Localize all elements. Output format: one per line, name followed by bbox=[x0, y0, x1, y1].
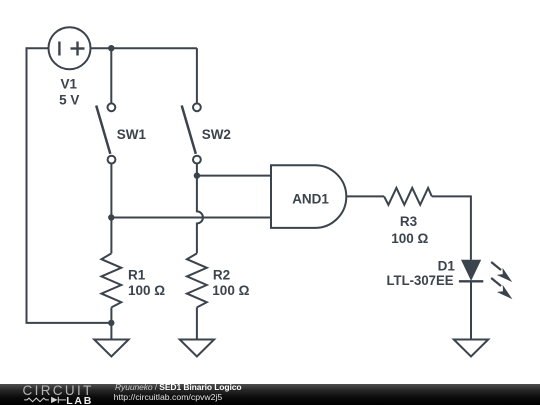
wire SW2 bottom lead to node A bbox=[196, 164, 198, 176]
wire R2 bottom to ground bbox=[196, 307, 198, 339]
resistor R2 bbox=[187, 253, 207, 307]
wire R1 bottom to ground bbox=[110, 307, 112, 339]
ground for R2 bbox=[180, 340, 214, 357]
voltage source V1 bbox=[49, 27, 91, 69]
svg-text:AND1: AND1 bbox=[292, 191, 329, 206]
wire AND1 output to R3 bbox=[346, 195, 384, 197]
svg-text:R2: R2 bbox=[213, 268, 230, 283]
wire node B to AND1 input bbox=[111, 217, 271, 219]
switch SW1 bbox=[96, 103, 115, 163]
junction node V1/SW1 top bbox=[108, 45, 114, 51]
wire V1 right to SW2 top bbox=[91, 47, 197, 49]
wire bottom horizontal rail to R1 ground node bbox=[26, 322, 112, 324]
diode D1 LED bbox=[459, 260, 513, 299]
svg-text:SW2: SW2 bbox=[202, 127, 231, 142]
ground for D1 bbox=[454, 340, 488, 357]
resistor R1 bbox=[101, 253, 121, 307]
svg-text:LTL-307EE: LTL-307EE bbox=[387, 273, 454, 288]
ground for R1 bbox=[94, 340, 128, 357]
footer bar bbox=[0, 384, 540, 405]
svg-text:100 Ω: 100 Ω bbox=[391, 231, 428, 246]
AND gate AND1 bbox=[271, 165, 346, 228]
wire D1 cathode to ground bbox=[470, 281, 472, 339]
svg-text:D1: D1 bbox=[438, 259, 456, 274]
wire V1 left stub to rail bbox=[27, 47, 49, 49]
wire node A to AND1 input bbox=[197, 175, 271, 177]
wire node A down to R2 with hop over input B wire bbox=[197, 176, 203, 254]
CircuitLab logo text CIRCUIT bbox=[23, 384, 94, 398]
wire SW1 top lead bbox=[110, 48, 112, 103]
CircuitLab logo text LAB bbox=[66, 396, 93, 405]
svg-text:SW1: SW1 bbox=[117, 127, 147, 142]
attribution author/title bbox=[115, 383, 241, 392]
resistor R3 bbox=[384, 188, 432, 205]
svg-text:R3: R3 bbox=[400, 214, 418, 229]
svg-text:100 Ω: 100 Ω bbox=[128, 283, 165, 298]
svg-text:R1: R1 bbox=[128, 268, 146, 283]
svg-text:5 V: 5 V bbox=[59, 92, 79, 107]
junction node SW2/R2 to gate input A bbox=[194, 172, 200, 178]
switch SW2 bbox=[182, 103, 201, 163]
CircuitLab logo resistor-diode glyph bbox=[22, 394, 92, 405]
junction node SW1/R1 to gate input B bbox=[108, 214, 114, 220]
wire SW1 bottom lead down to R1 bbox=[110, 164, 112, 254]
attribution url bbox=[114, 393, 223, 402]
svg-text:V1: V1 bbox=[60, 76, 77, 91]
svg-text:100 Ω: 100 Ω bbox=[212, 283, 249, 298]
wire R3 to LED corner bbox=[432, 196, 471, 259]
wire left rail down bbox=[26, 47, 28, 323]
junction node R1/rail ground bbox=[108, 320, 114, 326]
wire SW2 top lead bbox=[196, 48, 198, 103]
